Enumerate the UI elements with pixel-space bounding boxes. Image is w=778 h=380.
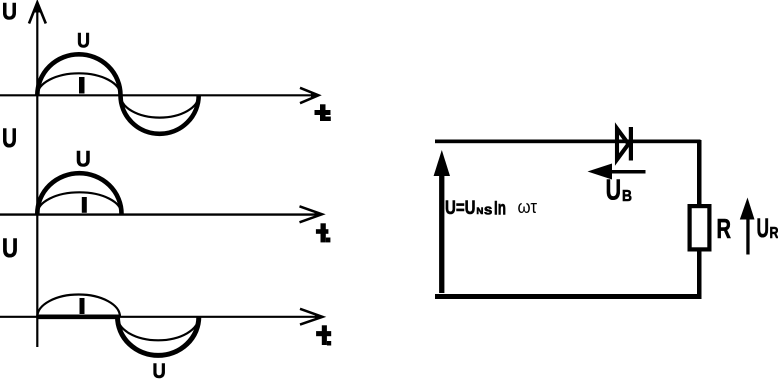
svg-text:U: U: [2, 123, 17, 153]
svg-text:U: U: [153, 360, 166, 380]
svg-text:U: U: [606, 175, 622, 207]
svg-text:B: B: [622, 188, 632, 205]
svg-text:s: s: [484, 203, 493, 219]
svg-text:U: U: [2, 0, 17, 25]
svg-text:In: In: [494, 198, 506, 220]
svg-text:U: U: [2, 233, 18, 263]
svg-text:N: N: [476, 206, 483, 216]
svg-text:R: R: [717, 213, 732, 244]
svg-text:U: U: [76, 147, 91, 172]
svg-text:R: R: [770, 225, 778, 242]
svg-text:U: U: [757, 213, 770, 243]
svg-text:ωτ: ωτ: [518, 197, 538, 217]
svg-text:U: U: [77, 29, 90, 53]
svg-text:U=U: U=U: [445, 197, 476, 219]
